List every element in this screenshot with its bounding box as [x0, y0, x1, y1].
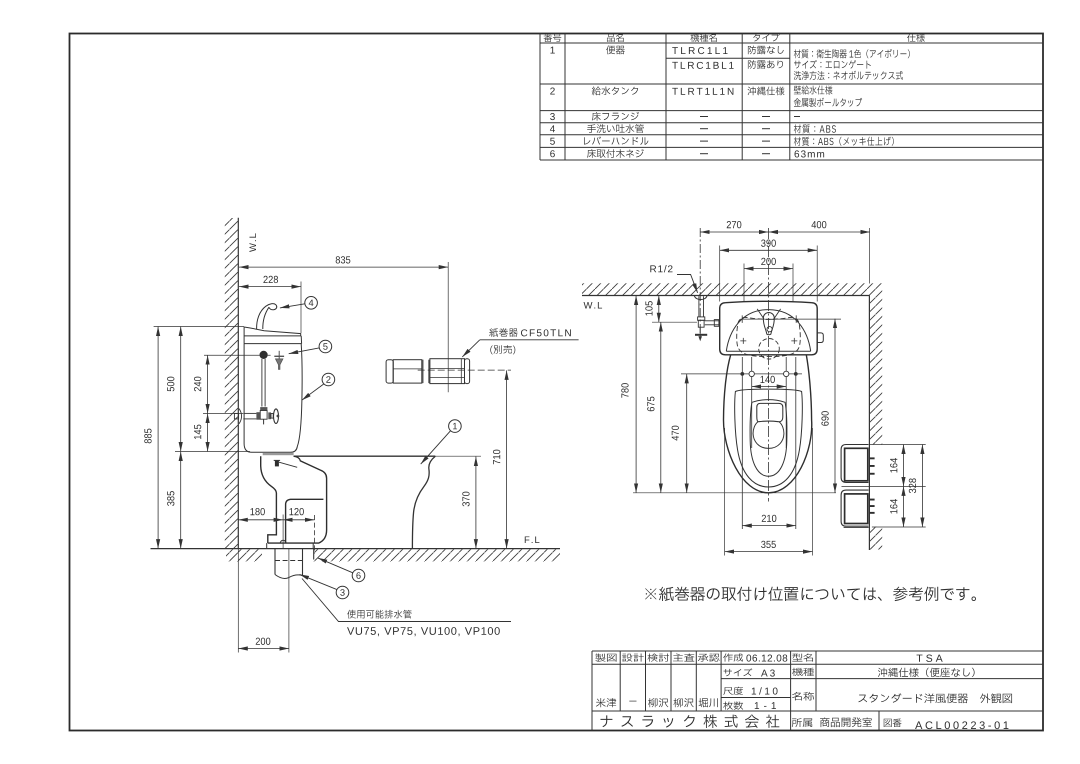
right wall hatch — [869, 296, 882, 445]
extension lines — [154, 326, 244, 328]
label: 1 — [550, 47, 554, 54]
floor line F.L — [151, 548, 561, 550]
dimension 370 — [475, 457, 477, 549]
label: 仕様 — [907, 33, 925, 41]
top wall line — [582, 295, 869, 297]
label: 防露あり — [748, 60, 783, 69]
label: 壁給水仕様 — [794, 86, 833, 95]
label: TLRC1L1 — [672, 47, 727, 54]
label: 690 — [821, 411, 828, 426]
dimension 780 — [635, 296, 637, 493]
drain pipe (item 3) — [274, 549, 276, 575]
label: 390 — [761, 240, 776, 247]
water box — [757, 403, 783, 421]
closet bolt cap — [275, 461, 279, 467]
label: 図番 — [884, 719, 902, 728]
label: 床取付木ネジ — [587, 149, 644, 158]
label: 名称 — [792, 692, 814, 701]
spout plan (keyhole) — [763, 313, 774, 335]
label: 1/10 — [752, 687, 778, 694]
balloon 4 — [305, 297, 318, 310]
label: 防露なし — [748, 46, 784, 55]
label: 品名 — [607, 34, 624, 42]
label: 米津 — [596, 698, 616, 707]
dimension 675 — [660, 322, 662, 493]
label: 120 — [289, 508, 303, 515]
label: ACL00223-01 — [915, 721, 1008, 729]
hinge line — [681, 373, 802, 375]
label: TLRT1L1N — [672, 88, 733, 95]
label: 355 — [761, 541, 776, 548]
label: 番号 — [544, 34, 562, 42]
floor hatch — [226, 549, 262, 561]
label: 500 — [167, 377, 174, 392]
dimension 385 — [180, 452, 182, 549]
label: 柳沢 — [674, 698, 694, 707]
label: ー — [629, 700, 636, 703]
label: 270 — [727, 221, 742, 228]
dimension 355 — [725, 551, 813, 553]
drain pipe note leader — [302, 579, 511, 622]
label: 1 — [453, 423, 457, 429]
hand-wash spout (item 4) — [257, 304, 277, 329]
label: 4 — [309, 300, 314, 306]
dimension 164 upper — [903, 445, 905, 487]
bowl front extension line — [633, 492, 836, 494]
label: 紙巻器 — [489, 328, 517, 337]
label: 164 — [890, 499, 897, 513]
bowl center line — [768, 228, 770, 502]
dimension 328 — [921, 445, 923, 528]
dimension 164 lower — [903, 486, 905, 527]
dimension 200 (plan) — [744, 268, 793, 270]
label: 機種 — [792, 668, 814, 676]
label: 材質：衛生陶器 1色（アイボリー） — [794, 49, 910, 58]
text (vector glyphs) — [144, 33, 1012, 729]
R1/2 label — [677, 275, 698, 293]
floor flange (item 6) — [266, 543, 268, 549]
label: 6 — [356, 572, 360, 579]
label: CF50TLN — [521, 329, 571, 336]
label: W.L — [249, 233, 256, 252]
label: 3 — [550, 113, 555, 120]
label: 5 — [550, 138, 555, 145]
title block grid — [592, 651, 1043, 731]
V guide lines — [757, 309, 764, 320]
valve handle — [695, 334, 707, 336]
label: 便器 — [606, 45, 625, 54]
pedestal outline — [261, 456, 277, 543]
label: 設計 — [622, 654, 644, 662]
label: ナスラック株式会社 — [600, 715, 779, 728]
label: 180 — [250, 508, 264, 515]
dimension 180 — [238, 519, 283, 521]
dimension 120 — [283, 519, 314, 521]
label: 検討 — [647, 653, 669, 661]
dimension 240 — [207, 355, 209, 413]
label: 228 — [263, 276, 278, 283]
label: 145 — [194, 425, 201, 439]
tank lid (item 2 top) — [244, 327, 301, 336]
tank side tab — [817, 333, 823, 343]
water sump — [753, 422, 784, 449]
dimension 470 — [686, 374, 688, 493]
label: 200 — [256, 638, 271, 645]
label: 470 — [672, 426, 679, 441]
label: 金属製ボールタップ — [794, 98, 862, 107]
label: 給水タンク — [592, 86, 638, 95]
mounting ticks — [870, 457, 875, 513]
label: 床フランジ — [592, 112, 639, 121]
label: 105 — [645, 301, 652, 315]
wall hatch — [225, 218, 239, 549]
ball-tap float — [260, 351, 268, 359]
top wall hatch — [582, 283, 882, 295]
supply center line — [699, 228, 701, 339]
label: 06.12.08 — [746, 655, 787, 662]
hinge verticals — [741, 357, 743, 529]
tank base gasket — [263, 453, 294, 455]
label: サイズ：エロンゲート — [794, 60, 871, 69]
label: ※紙巻器の取付け位置については、参考例です。 — [645, 587, 976, 601]
label: 材質：ABS — [794, 124, 836, 133]
supply pipe — [698, 296, 700, 317]
label: 所属 — [792, 718, 812, 727]
dimension 885 — [157, 327, 159, 549]
label: 210 — [762, 515, 777, 522]
label: 4 — [550, 125, 555, 132]
stop valve assembly — [234, 407, 279, 424]
tank body (item 2) — [244, 344, 302, 453]
label: 885 — [144, 429, 151, 444]
wall supply flange — [694, 296, 707, 300]
bowl plan outer — [723, 355, 811, 493]
label: 2 — [550, 88, 555, 95]
label: 200 — [761, 258, 776, 265]
label: 型名 — [792, 653, 813, 661]
label: 164 — [890, 458, 897, 472]
dimension 145 — [207, 414, 209, 452]
label: 400 — [811, 221, 826, 228]
dimension 210 — [742, 525, 796, 527]
label: 710 — [493, 450, 500, 465]
holder center line — [842, 485, 926, 487]
label: F.L — [525, 536, 540, 543]
dimension 400 — [769, 231, 871, 233]
dimension 228 — [239, 286, 301, 288]
bowl front S-curve — [412, 456, 435, 548]
tank lid inner arc — [726, 310, 810, 352]
label: W.L — [584, 302, 603, 309]
label: R1/2 — [650, 265, 672, 272]
label: レバーハンドル — [584, 137, 648, 145]
label: 675 — [647, 397, 654, 412]
balloon 5 — [319, 340, 332, 353]
dimension 200 — [238, 648, 289, 650]
label: 沖縄仕様（便座なし） — [878, 668, 975, 677]
label: 370 — [462, 492, 469, 507]
label: 堀川 — [699, 698, 718, 707]
label: 尺度 — [723, 687, 743, 695]
bowl opening — [750, 400, 787, 477]
dimension 690 — [834, 319, 836, 493]
balloon 2 — [322, 373, 335, 386]
label: 機種名 — [691, 33, 717, 41]
label: 材質：ABS（メッキ仕上げ） — [794, 137, 894, 146]
label: 2 — [326, 376, 330, 382]
dimension 105 — [658, 296, 660, 323]
label: サイズ — [724, 668, 753, 676]
right wall line — [868, 296, 870, 551]
dimension 710 — [506, 370, 508, 548]
cross marks — [741, 315, 797, 323]
label: 328 — [909, 478, 916, 493]
paper holder front view upper box — [841, 445, 868, 483]
parts table dash placeholders — [700, 117, 800, 154]
dimension 835 — [239, 266, 448, 268]
paper holder front view lower box — [841, 490, 868, 526]
label: 製図 — [595, 653, 616, 661]
tank plan outline — [720, 301, 818, 355]
label: 枚数 — [723, 701, 743, 709]
lever handle (item 5) — [274, 351, 284, 370]
bowl top line (item 1) — [294, 455, 436, 457]
label: 主査 — [673, 653, 694, 661]
label: 洗浄方法：ネオボルテックス式 — [794, 71, 903, 80]
hinge marks — [740, 372, 744, 376]
label: 140 — [760, 376, 774, 383]
dimension 270 — [700, 231, 768, 233]
label: 240 — [194, 377, 201, 392]
supply pipe to tank — [705, 320, 720, 322]
label: 柳沢 — [648, 698, 668, 707]
parts table grid — [540, 34, 1043, 161]
label: 780 — [621, 383, 628, 398]
label: 5 — [323, 343, 327, 349]
balloon 3 — [336, 586, 349, 599]
label: 使用可能排水管 — [347, 610, 411, 619]
balloon 1 — [449, 420, 462, 433]
label: (別売) — [490, 345, 515, 354]
dimension 140 — [752, 386, 787, 388]
label: 1-1 — [755, 702, 776, 709]
dashed wash basin — [737, 317, 801, 356]
wall line — [237, 218, 239, 549]
label: 6 — [550, 150, 555, 157]
label: 作成 — [723, 653, 743, 661]
balloon 6 — [352, 569, 365, 582]
dimension 390 — [720, 249, 818, 251]
label: タイプ — [753, 33, 779, 41]
label: TSA — [917, 654, 943, 661]
label: 承認 — [698, 654, 720, 662]
dimension 500 — [180, 327, 182, 452]
label: VU75, VP75, VU100, VP100 — [347, 627, 500, 636]
label: A3 — [761, 670, 775, 677]
paper holder side view — [386, 359, 470, 384]
label: 商品開発室 — [820, 717, 872, 727]
label: 沖縄仕様 — [748, 87, 785, 96]
label: 385 — [167, 491, 174, 506]
stop valve body — [698, 317, 705, 320]
label: 63mm — [795, 150, 825, 157]
label: TLRC1BL1 — [672, 62, 733, 69]
label: 835 — [336, 256, 351, 263]
label: スタンダード洋風便器 外観図 — [858, 693, 1012, 703]
label: 3 — [340, 589, 344, 596]
bowl rim inner — [735, 389, 803, 487]
label: 手洗い吐水管 — [587, 124, 644, 133]
paper holder label CF50TLN — [480, 339, 579, 341]
